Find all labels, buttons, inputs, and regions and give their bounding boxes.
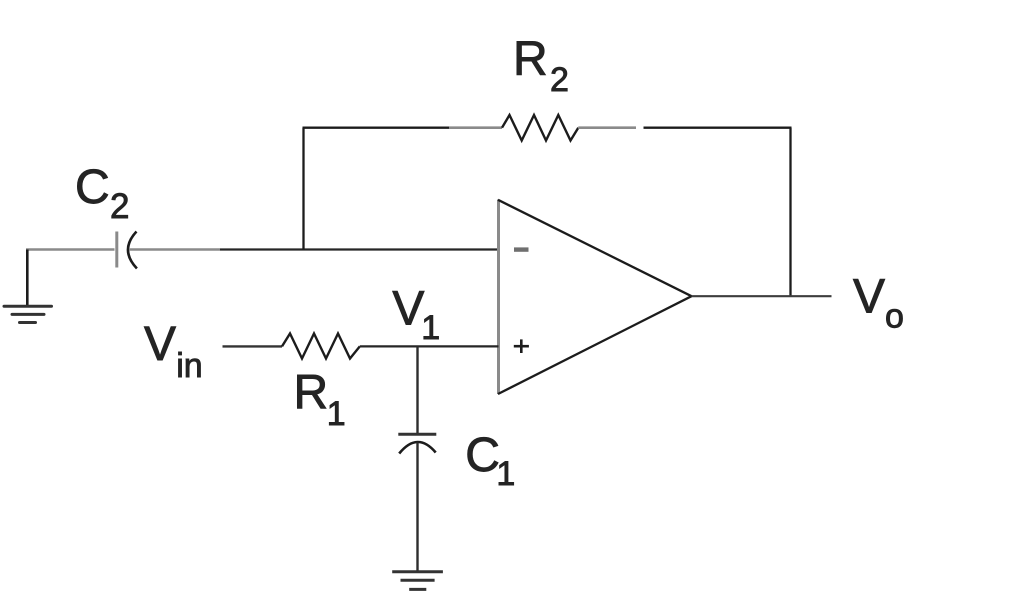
op-amp U1 left edge [497,200,500,395]
wire: Vin lead to R1 [223,345,283,347]
capacitor C2 curved plate [128,232,137,269]
resistor R2 [502,115,578,141]
svg-text:1: 1 [421,309,440,347]
resistor R1 [282,334,360,359]
ground (left) [4,306,52,322]
wire: feedback left vertical riser [302,128,304,250]
svg-text:in: in [176,347,202,385]
wire: C2 to inverting-input node (gray portion) [129,248,220,251]
wire: left ground drop [26,250,29,307]
wire: ground lead left of C2 [26,248,115,251]
svg-text:V: V [144,318,176,371]
op-amp U1 top edge [498,200,692,296]
svg-text:2: 2 [550,61,569,99]
svg-text:o: o [885,298,904,336]
wire: node V1 drop to C1 [416,346,418,434]
op-amp U1 bottom edge [498,296,692,394]
svg-text:2: 2 [110,187,129,226]
svg-text:R: R [513,33,548,86]
capacitor C1 flat plate [398,433,436,436]
wire: top feedback horizontal (black left) [303,127,450,129]
svg-text:V: V [392,283,424,336]
wire: top feedback horizontal (black right) [644,127,792,129]
op-amp inverting input label - [514,247,529,251]
ground (bottom) [392,572,443,590]
svg-text:R: R [294,367,329,420]
svg-text:C: C [75,161,110,214]
wire: to op-amp inverting input (black portion) [220,248,499,250]
wire: C1 to bottom ground [416,443,418,572]
svg-text:C: C [465,429,500,482]
capacitor C2 flat plate [115,232,118,268]
wire: R2 left lead (gray) [449,126,502,129]
svg-text:1: 1 [327,395,346,433]
wire: op-amp output [692,295,832,297]
wire: feedback right vertical drop to output [789,128,791,297]
capacitor C1 curved plate [399,442,436,454]
wire: R1 to op-amp non-inverting input [360,345,499,347]
svg-text:1: 1 [496,455,515,493]
svg-text:V: V [853,271,885,324]
wire: R2 right lead (gray) [578,126,636,129]
op-amp non-inverting input label + [514,339,529,353]
